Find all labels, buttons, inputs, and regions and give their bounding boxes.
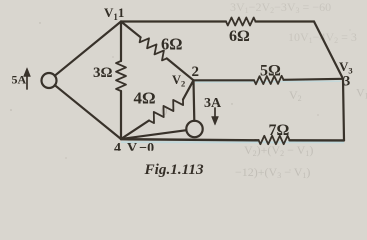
resistor 6ohm diagonal zigzag: [140, 37, 167, 60]
paper background: [0, 0, 367, 185]
resistor 5ohm zigzag: [254, 76, 284, 85]
svg-text:3Ω: 3Ω: [93, 65, 113, 81]
current source 3A circle: [186, 121, 202, 137]
wire node1 down to 3ohm: [120, 22, 122, 62]
wire source circle to ground node: [55, 85, 121, 139]
wire top from node1 to 6ohm: [121, 20, 226, 22]
resistor 6ohm top zigzag: [226, 18, 256, 26]
wire 5ohm to node3: [284, 79, 344, 80]
wire source circle to node1: [55, 22, 121, 76]
paper specks: [10, 22, 350, 170]
svg-text:4Ω: 4Ω: [134, 89, 156, 108]
svg-text:3A: 3A: [204, 96, 222, 111]
wire node1 to 6ohm diagonal: [121, 22, 141, 38]
svg-text:6Ω: 6Ω: [229, 28, 250, 45]
current source 5A circle: [42, 73, 57, 88]
wire diagonal corner to node3: [314, 22, 343, 79]
wire 4ohm to node2: [183, 80, 194, 99]
arrow 5A: [26, 71, 28, 89]
svg-text:5A: 5A: [12, 73, 27, 87]
resistor 7ohm zigzag: [259, 136, 290, 144]
wire right vertical node3 to bottom corner: [343, 79, 344, 140]
svg-text:6Ω: 6Ω: [161, 35, 182, 54]
svg-text:−12)+(V3 − V1): −12)+(V3 − V1): [235, 165, 310, 180]
wire 3ohm down to ground node: [120, 91, 122, 139]
wire top right to corner: [256, 20, 315, 22]
scan fringe under 5ohm wire: [195, 81, 341, 82]
wire bottom from ground node to 7ohm: [121, 139, 259, 140]
clip rectangle over ground label bottom: [108, 151, 166, 160]
svg-text:5Ω: 5Ω: [260, 63, 281, 80]
wire 6ohm diagonal to node2: [167, 58, 194, 80]
wire ground node to 3A source circle: [121, 130, 186, 139]
arrow 3A: [214, 108, 216, 120]
wire node2 down to 3A source: [192, 80, 195, 121]
resistor 3ohm zigzag: [116, 61, 126, 91]
wire ground node to 4ohm: [121, 121, 149, 140]
svg-text:7Ω: 7Ω: [269, 122, 290, 139]
svg-text:2: 2: [192, 64, 200, 80]
scan fringe under bottom wire: [121, 141, 344, 143]
svg-text:3: 3: [343, 74, 350, 90]
wire node2 to 5ohm: [194, 79, 255, 81]
wire 7ohm to bottom right corner: [290, 139, 345, 141]
resistor 4ohm zigzag: [149, 100, 183, 124]
svg-text:Fig.1.113: Fig.1.113: [144, 161, 204, 178]
